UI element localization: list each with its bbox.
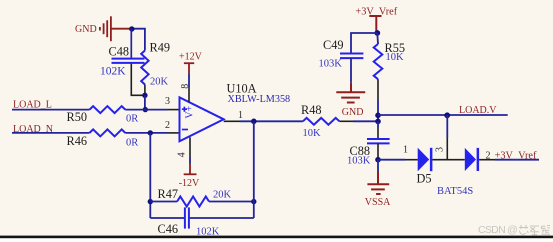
wire to C49 branch — [351, 33, 377, 54]
svg-text:103K: 103K — [347, 155, 371, 166]
wire C48 top lead — [130, 29, 132, 59]
node +3V junction — [374, 30, 380, 36]
capacitor C49 — [340, 54, 363, 59]
wire LOAD_N — [12, 132, 90, 134]
svg-text:20K: 20K — [213, 189, 232, 200]
pin 8 stub — [188, 87, 190, 102]
pin 4 stub — [189, 137, 191, 157]
wire R48 right lead — [339, 120, 353, 122]
svg-text:D5: D5 — [417, 171, 432, 185]
wire R46 to op-amp pin 2 — [125, 132, 168, 134]
svg-text:4: 4 — [176, 152, 187, 157]
svg-text:0R: 0R — [126, 113, 138, 124]
resistor R47 — [177, 197, 209, 207]
svg-text:3: 3 — [165, 96, 170, 107]
svg-text:2: 2 — [486, 150, 491, 161]
svg-text:C49: C49 — [323, 38, 344, 52]
svg-text:1: 1 — [238, 110, 243, 121]
capacitor C88 — [367, 139, 390, 143]
node pin3 — [143, 107, 148, 112]
wire C88 bottom lead — [377, 143, 379, 159]
pin 3 common cathode riser — [446, 138, 448, 160]
svg-text:20K: 20K — [150, 76, 169, 87]
wire to +3V_Vref net — [479, 159, 495, 161]
svg-text:C48: C48 — [109, 45, 130, 59]
svg-text:CSDN @: CSDN @ — [478, 224, 517, 236]
resistor R50 — [90, 106, 126, 113]
svg-text:R49: R49 — [150, 40, 171, 54]
diode (right half of BAT54S) — [465, 148, 479, 171]
wire R49 bottom lead — [144, 85, 146, 96]
node C88 / D5 — [375, 157, 381, 163]
svg-text:+3V_Vref: +3V_Vref — [495, 151, 537, 162]
svg-text:3: 3 — [434, 147, 445, 152]
wire R47 left lead — [150, 201, 177, 203]
wire D5 cathode to common — [432, 159, 464, 161]
wire LOAD_L — [12, 109, 90, 111]
svg-text:-12V: -12V — [179, 178, 200, 189]
wire C48 bottom lead — [131, 63, 145, 95]
svg-text:XBLW-LM358: XBLW-LM358 — [228, 94, 291, 105]
diode D5 (left half of BAT54S) — [418, 148, 433, 171]
wire pin 8 — [188, 74, 190, 87]
svg-text:103K: 103K — [319, 58, 343, 69]
svg-text:2: 2 — [165, 120, 170, 131]
svg-text:R50: R50 — [67, 110, 88, 124]
resistor R55 — [374, 44, 383, 79]
wire C88 top lead — [377, 121, 379, 127]
node LOAD.V tee — [375, 113, 381, 119]
svg-text:R46: R46 — [67, 134, 88, 148]
wire D5 anode — [378, 159, 405, 161]
svg-text:0R: 0R — [126, 137, 138, 148]
wire C46 row — [150, 217, 254, 219]
node output / feedback — [251, 119, 257, 125]
wire feedback right vertical — [253, 121, 255, 218]
ground GND (under C49) — [336, 83, 365, 103]
svg-text:8: 8 — [180, 84, 191, 89]
wire junction down to pin3 net — [144, 95, 146, 109]
wire LOAD.V row — [378, 114, 508, 116]
watermark — [478, 224, 550, 236]
op-amp U10A — [180, 97, 224, 141]
wire R55 bottom lead — [377, 79, 379, 100]
svg-text:+12V: +12V — [179, 52, 203, 63]
svg-text:VSSA: VSSA — [365, 197, 391, 208]
svg-text:10K: 10K — [303, 128, 322, 139]
pin 3 stub — [168, 109, 180, 111]
svg-text:R47: R47 — [158, 187, 179, 201]
node R48 tee — [375, 119, 381, 125]
wire R47 right lead — [209, 201, 254, 203]
wire R50 to op-amp pin 3 — [125, 109, 168, 111]
wire feedback left vertical — [149, 133, 151, 218]
resistor R48 — [303, 118, 340, 125]
node feedback R47 right — [251, 199, 256, 204]
wire C49 bottom lead — [350, 58, 352, 83]
wire top junction to R49 branch — [132, 29, 145, 51]
svg-text:GND: GND — [342, 107, 364, 118]
resistor R49 — [141, 51, 148, 85]
ground GND (top-left, horizontal earth symbol) — [100, 16, 132, 41]
resistor R46 — [90, 129, 126, 136]
svg-text:LOAD.V: LOAD.V — [459, 105, 497, 116]
wire op-amp output — [224, 120, 240, 122]
svg-text:GND: GND — [75, 24, 97, 35]
pin 2 stub — [168, 132, 180, 134]
node LOAD.V branch — [444, 112, 450, 118]
ground VSSA — [377, 160, 379, 171]
svg-text:10K: 10K — [386, 52, 405, 63]
node top C48/R49 — [129, 26, 134, 31]
wire R55 top lead — [376, 33, 379, 44]
capacitor C48 — [112, 59, 145, 63]
node feedback R47 left — [148, 199, 153, 204]
node C48/R49 bottom — [142, 93, 147, 98]
svg-text:R48: R48 — [301, 103, 322, 117]
svg-text:1: 1 — [403, 144, 408, 155]
node pin2 / feedback tap — [148, 130, 153, 135]
svg-text:BAT54S: BAT54S — [437, 186, 473, 197]
svg-text:V+: V+ — [185, 105, 196, 118]
capacitor C46 — [185, 207, 189, 228]
svg-text:102K: 102K — [100, 66, 126, 78]
svg-text:102K: 102K — [196, 227, 220, 238]
svg-text:C46: C46 — [158, 222, 179, 236]
